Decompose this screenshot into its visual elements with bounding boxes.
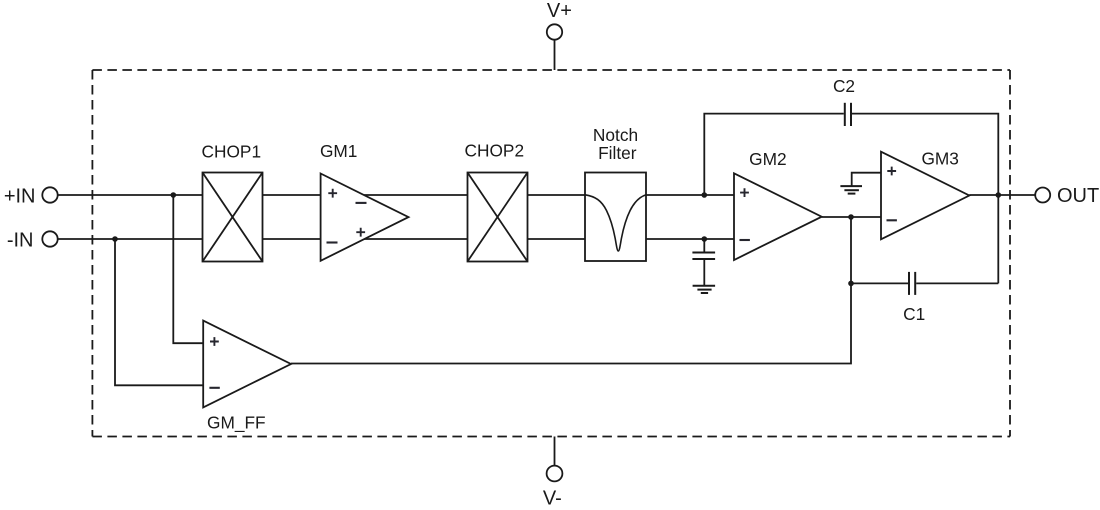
svg-text:GM2: GM2 bbox=[749, 149, 786, 169]
capacitor C2 bbox=[845, 103, 851, 126]
junction node at C1 tap bbox=[848, 281, 854, 287]
pin sign GM1 - (bottom input) bbox=[327, 241, 338, 243]
svg-text:+IN: +IN bbox=[4, 185, 36, 207]
chopper CHOP1 bbox=[203, 173, 263, 262]
junction node at GM2 + input bbox=[702, 192, 708, 198]
pin sign GM2 + bbox=[740, 188, 749, 197]
terminal V- bbox=[547, 466, 563, 482]
wire GM2 - node down to capacitor bbox=[703, 239, 705, 253]
wire +IN rail to CHOP1 bbox=[58, 194, 203, 196]
terminal +IN bbox=[42, 187, 57, 202]
junction node on -IN rail bbox=[112, 236, 118, 242]
op-amp GM_FF bbox=[203, 321, 291, 408]
svg-text:Notch: Notch bbox=[593, 125, 638, 145]
op-amp GM1 bbox=[321, 174, 409, 261]
svg-text:V-: V- bbox=[543, 488, 562, 510]
wire C1 tap node to C1 left plate bbox=[851, 282, 908, 284]
op-amp GM2 bbox=[734, 173, 822, 260]
wire GM2 out to GM3 - bbox=[822, 216, 881, 218]
svg-text:CHOP1: CHOP1 bbox=[202, 142, 262, 162]
pin sign GM_FF - bbox=[209, 387, 219, 389]
wire CHOP1 to GM1 top bbox=[263, 194, 321, 196]
terminal -IN bbox=[42, 231, 57, 246]
svg-text:GM_FF: GM_FF bbox=[207, 412, 266, 432]
terminal V+ bbox=[547, 24, 562, 39]
pin sign GM1 + (top input) bbox=[328, 189, 337, 198]
wire GM2 + input up to C2 left plate bbox=[704, 114, 844, 195]
wire GM1 to CHOP2 bottom bbox=[365, 238, 468, 240]
wire C1 right plate to output node bbox=[916, 282, 998, 284]
wire Notch to GM2 - bbox=[646, 238, 734, 240]
capacitor at GM2 - input bbox=[692, 253, 715, 260]
svg-text:-IN: -IN bbox=[7, 229, 34, 251]
wire V- stub bbox=[554, 437, 556, 466]
svg-text:CHOP2: CHOP2 bbox=[465, 141, 525, 161]
notch filter box bbox=[585, 173, 646, 262]
chopper CHOP2 bbox=[468, 173, 528, 262]
terminal OUT bbox=[1035, 188, 1050, 203]
wire GM3 + to ground bbox=[852, 173, 881, 186]
pin sign GM3 + bbox=[887, 167, 896, 176]
pin sign GM1 - (top output) bbox=[356, 202, 367, 204]
pin sign GM3 - bbox=[887, 219, 897, 221]
svg-text:C1: C1 bbox=[903, 304, 925, 324]
wire -IN rail to CHOP1 bbox=[58, 238, 203, 240]
svg-text:Filter: Filter bbox=[598, 143, 637, 163]
wire GM3 out to OUT bbox=[969, 194, 1035, 196]
capacitor C1 bbox=[909, 272, 915, 295]
svg-text:GM3: GM3 bbox=[921, 149, 958, 169]
pin sign GM2 - bbox=[740, 239, 750, 241]
junction node at output bbox=[996, 192, 1002, 198]
svg-text:V+: V+ bbox=[547, 0, 572, 22]
wire +IN tap down to GM_FF + bbox=[173, 195, 203, 343]
op-amp GM3 bbox=[881, 152, 969, 240]
wire Notch to GM2 + bbox=[646, 194, 734, 196]
junction node at GM2 - input bbox=[702, 236, 708, 242]
wire capacitor to ground bbox=[703, 259, 705, 286]
wire CHOP2 to Notch top bbox=[528, 194, 586, 196]
wire V+ stub bbox=[554, 40, 556, 70]
wire CHOP1 to GM1 bottom bbox=[263, 238, 321, 240]
wire CHOP2 to Notch bottom bbox=[528, 238, 586, 240]
wire GM_FF output feedback bbox=[291, 217, 851, 364]
junction node at GM3 - input bbox=[848, 214, 854, 220]
ground under GM2 input capacitor bbox=[693, 286, 716, 293]
svg-text:C2: C2 bbox=[833, 76, 855, 96]
pin sign GM_FF + bbox=[210, 337, 219, 346]
wire GM1 to CHOP2 top bbox=[364, 194, 468, 196]
junction node on +IN rail bbox=[171, 192, 177, 198]
dashed boundary box bbox=[92, 70, 1010, 437]
svg-text:OUT: OUT bbox=[1057, 185, 1099, 207]
pin sign GM1 + (bottom output) bbox=[356, 228, 365, 237]
wire -IN tap down to GM_FF - bbox=[115, 239, 203, 385]
svg-text:GM1: GM1 bbox=[320, 141, 357, 161]
wire C2 right plate to output node bbox=[852, 114, 998, 284]
ground at GM3 + input bbox=[840, 186, 862, 194]
